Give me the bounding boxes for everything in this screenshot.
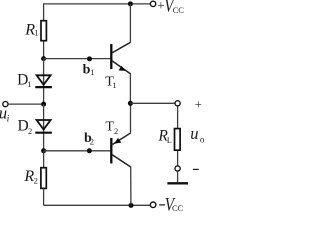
wire: R1 top branch bbox=[43, 3, 45, 20]
svg-text:1: 1 bbox=[27, 79, 31, 89]
label ui bbox=[0, 103, 10, 123]
label RL bbox=[157, 128, 172, 145]
label R1 bbox=[24, 22, 38, 39]
resistor R2 box bbox=[41, 168, 46, 189]
svg-text:2: 2 bbox=[114, 126, 118, 136]
svg-text:i: i bbox=[7, 113, 10, 123]
diode D1 triangle bbox=[37, 75, 51, 84]
svg-text:2: 2 bbox=[28, 126, 32, 136]
power terminal +VCC circle bbox=[150, 1, 155, 6]
node: top junction (collector T1 to rail) bbox=[128, 1, 133, 6]
ground bar bbox=[167, 182, 188, 184]
transistor T1 emitter arrow bbox=[119, 66, 126, 71]
svg-text:1: 1 bbox=[34, 27, 38, 37]
transistor T2 emitter lead bbox=[130, 103, 132, 133]
svg-text:2: 2 bbox=[90, 136, 94, 146]
wire: terminal down to RL bbox=[177, 106, 179, 128]
svg-text:o: o bbox=[200, 134, 205, 144]
ground terminal circle bbox=[175, 166, 180, 171]
wire: input to D junction bbox=[8, 103, 43, 105]
wire: output to terminal bbox=[130, 102, 174, 104]
transistor T1 base bar bbox=[110, 44, 112, 69]
resistor R1 box bbox=[41, 21, 46, 41]
label R2 bbox=[23, 168, 37, 186]
resistor RL box bbox=[175, 129, 181, 151]
svg-text:+: + bbox=[195, 97, 202, 111]
wire: D1 vertical through bbox=[43, 59, 45, 105]
power terminal -VCC circle bbox=[150, 202, 156, 208]
node b1 dot bbox=[87, 56, 92, 61]
node b2 dot bbox=[87, 148, 92, 153]
label D2 bbox=[18, 117, 33, 136]
svg-text:u: u bbox=[190, 124, 198, 143]
label uo bbox=[190, 124, 205, 145]
input terminal circle bbox=[3, 102, 8, 107]
label b2 bbox=[84, 131, 94, 147]
label D1 bbox=[17, 71, 31, 89]
label T2 bbox=[105, 120, 118, 136]
svg-text:1: 1 bbox=[90, 67, 94, 77]
wire: base wire to T2 bbox=[44, 150, 111, 152]
wire: junction down to R2 bbox=[43, 151, 45, 168]
wire: circle to ground bbox=[177, 171, 179, 182]
node: R2 top / base2 junction bbox=[41, 148, 46, 153]
transistor T2 collector lead bbox=[112, 155, 131, 167]
wire: R2 bottom to bottom rail bbox=[43, 188, 45, 205]
svg-text:CC: CC bbox=[172, 203, 183, 213]
transistor T1 emitter lead bbox=[112, 61, 130, 74]
label T1 bbox=[105, 74, 116, 90]
diode D2 cathode bar bbox=[35, 132, 52, 134]
wire: D2 vertical through bbox=[43, 104, 45, 151]
wire: top rail from R1 branch to +VCC terminal bbox=[44, 3, 151, 5]
wire: R1 bottom to node b1-row bbox=[43, 42, 45, 59]
svg-text:2: 2 bbox=[34, 176, 38, 186]
node: bottom junction (collector T2 to rail) bbox=[129, 203, 134, 208]
label +VCC bbox=[157, 0, 184, 16]
diode D1 cathode bar bbox=[35, 86, 52, 88]
svg-text:L: L bbox=[167, 136, 172, 145]
transistor T2 emitter arrow bbox=[114, 138, 121, 144]
node: D1 anode junction bbox=[41, 56, 46, 61]
wire: bottom rail to -VCC terminal bbox=[44, 204, 150, 206]
wire: RL bottom to ground circle bbox=[177, 151, 179, 166]
transistor T2 base bar bbox=[110, 138, 112, 163]
wire: base wire to T1 bbox=[44, 58, 111, 60]
node: output emitter junction bbox=[128, 101, 133, 106]
label output minus bbox=[193, 168, 199, 170]
svg-text:1: 1 bbox=[112, 80, 116, 90]
label -VCC bbox=[159, 194, 183, 215]
svg-text:CC: CC bbox=[173, 5, 184, 15]
label b1 bbox=[83, 63, 95, 78]
output terminal circle bbox=[175, 101, 180, 106]
transistor T1 collector lead bbox=[112, 42, 130, 53]
diode D2 triangle bbox=[37, 120, 51, 130]
node: D1/D2 midpoint junction bbox=[41, 102, 46, 107]
